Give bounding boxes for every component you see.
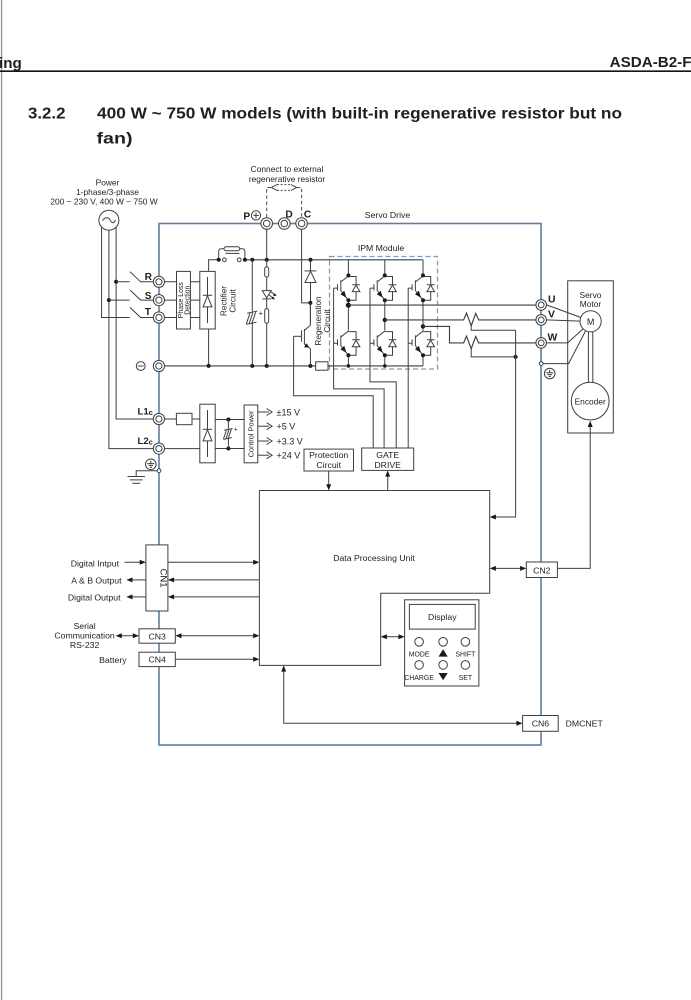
N bus left of shunt xyxy=(165,365,316,367)
arrow CN1 to A&B output xyxy=(130,579,146,581)
external regenerative resistor note xyxy=(249,164,326,184)
IPM column 1 collector stub xyxy=(347,260,349,276)
svg-text:Display: Display xyxy=(428,612,457,622)
IPM column 2 collector stub xyxy=(384,260,386,276)
svg-text:CN2: CN2 xyxy=(533,565,551,575)
W phase wire with current sensor xyxy=(423,326,536,348)
svg-text:V: V xyxy=(548,309,555,320)
junction P terminal xyxy=(265,258,269,262)
svg-text:Battery: Battery xyxy=(99,655,127,665)
svg-text:Encoder: Encoder xyxy=(575,396,606,406)
arrow DPU to CN1 row3 xyxy=(172,596,260,598)
DC P bus xyxy=(245,259,423,261)
Control Power block xyxy=(244,405,258,463)
svg-text:ing: ing xyxy=(0,55,22,72)
switch T xyxy=(130,307,153,317)
U phase wire xyxy=(348,304,536,306)
svg-text:±15 V: ±15 V xyxy=(277,407,300,417)
terminal minus xyxy=(153,360,164,371)
L1c fuse xyxy=(165,418,200,420)
wire DPU to CN6 xyxy=(284,669,519,724)
svg-text:+3.3 V: +3.3 V xyxy=(277,436,303,446)
display panel outer box xyxy=(405,600,479,686)
wire U terminal to motor xyxy=(547,305,581,318)
svg-text:+: + xyxy=(234,427,238,434)
terminal S xyxy=(153,295,164,306)
svg-text:M: M xyxy=(587,317,595,327)
IPM module dashed box xyxy=(330,257,438,370)
regen diode branch xyxy=(310,260,312,303)
phase V tap xyxy=(383,318,387,322)
collector junction dots xyxy=(346,273,350,277)
double arrow DPU to display xyxy=(384,636,401,638)
switch S xyxy=(109,290,153,300)
svg-text:Data Processing Unit: Data Processing Unit xyxy=(333,553,415,563)
motor shaft xyxy=(588,332,592,383)
junction relay left xyxy=(217,258,221,262)
capacitor (hatched electrolytic) xyxy=(246,309,263,325)
terminal D xyxy=(279,218,291,230)
gate wire column 2 xyxy=(370,288,396,448)
svg-text:Circuit: Circuit xyxy=(316,460,341,470)
wire ground node to motor xyxy=(543,331,586,364)
svg-text:L1c: L1c xyxy=(137,406,152,417)
LED branch: wire from P junction xyxy=(266,260,268,366)
svg-text:CN1: CN1 xyxy=(158,568,169,587)
phase loss detection block xyxy=(177,271,191,329)
svg-text:L2c: L2c xyxy=(137,436,152,447)
terminal T xyxy=(153,312,164,323)
junction C/diode/regen collector xyxy=(308,301,312,305)
svg-text:Servo Drive: Servo Drive xyxy=(365,210,411,220)
N bus junctions xyxy=(207,364,211,368)
svg-text:1-phase/3-phase: 1-phase/3-phase xyxy=(76,187,139,197)
wire C terminal down to regen node xyxy=(302,229,311,303)
svg-text:200 ~ 230 V, 400 W ~ 750 W: 200 ~ 230 V, 400 W ~ 750 W xyxy=(50,197,157,207)
wire phase2 (to S and L2c) xyxy=(109,230,153,448)
svg-text:Control Power: Control Power xyxy=(246,410,255,457)
svg-text:Serial: Serial xyxy=(73,621,95,631)
wire V terminal to motor xyxy=(547,320,581,321)
bleeder resistor 1 xyxy=(265,267,269,277)
wire phase3 (to R and L1c) xyxy=(116,227,153,419)
svg-text:DRIVE: DRIVE xyxy=(374,460,401,470)
terminal V xyxy=(536,315,547,326)
svg-text:+: + xyxy=(259,309,264,318)
svg-text:MODE: MODE xyxy=(409,651,430,658)
svg-text:R: R xyxy=(145,272,153,283)
gate wire column 3 xyxy=(407,288,409,448)
header rule xyxy=(0,70,691,72)
svg-text:T: T xyxy=(145,307,152,318)
control bus capacitor xyxy=(223,420,237,449)
svg-text:SHIFT: SHIFT xyxy=(455,651,476,658)
sensor junction xyxy=(514,355,518,359)
earth wire xyxy=(136,471,157,477)
keypad buttons row 1 xyxy=(415,638,424,647)
wire phase1 (to T) xyxy=(102,227,130,318)
charge LED xyxy=(262,291,276,300)
servo drive enclosure (blue box) xyxy=(159,224,541,746)
capacitor branch wire xyxy=(251,260,253,366)
servo motor box xyxy=(568,281,614,433)
IGBT U-high xyxy=(334,276,360,300)
arrow CN1 to digital output xyxy=(130,596,146,598)
CN4 connector xyxy=(139,652,175,666)
svg-text:3.2.2: 3.2.2 xyxy=(28,106,66,123)
svg-text:A & B Output: A & B Output xyxy=(71,576,122,586)
rectifier top lead to DC bus xyxy=(209,260,219,272)
wire to regen transistor xyxy=(309,303,311,324)
IPM column 3 collector stub xyxy=(422,260,424,276)
regen gate wire to gate drive xyxy=(294,336,374,448)
phase U tap xyxy=(346,303,351,308)
svg-text:regenerative resistor: regenerative resistor xyxy=(249,174,326,184)
terminal C xyxy=(296,218,308,230)
protective earth symbol xyxy=(544,368,555,379)
chassis earth circle below L2c xyxy=(146,459,157,470)
svg-text:RS-232: RS-232 xyxy=(70,640,100,650)
L2c wire xyxy=(165,448,200,450)
regen IGBT Q7 xyxy=(294,303,311,348)
IGBT W-high xyxy=(408,276,434,300)
svg-text:W: W xyxy=(548,332,558,343)
terminal U xyxy=(536,300,547,311)
arrow CN1 to DPU row1 xyxy=(168,561,256,563)
svg-text:Protection: Protection xyxy=(309,450,348,460)
ground symbol xyxy=(128,477,146,484)
svg-text:+5 V: +5 V xyxy=(277,422,296,432)
power source label xyxy=(50,178,157,207)
encoder xyxy=(571,382,609,420)
terminal W xyxy=(536,338,547,349)
ground node circle xyxy=(539,362,543,366)
svg-text:P: P xyxy=(243,211,250,222)
shunt resistor on N bus xyxy=(316,362,328,370)
soft-charge relay bypass resistor xyxy=(219,247,245,262)
svg-text:Detection: Detection xyxy=(184,285,191,314)
wire P terminal to bus xyxy=(266,229,268,259)
junction relay right xyxy=(243,258,247,262)
GATE DRIVE block xyxy=(362,448,414,470)
terminal L1c xyxy=(153,413,164,424)
svg-text:Circuit: Circuit xyxy=(323,309,332,333)
column 1 midpoint wire xyxy=(347,300,349,330)
phase junction dots high side xyxy=(346,298,350,302)
terminal R xyxy=(153,276,164,287)
CN1 connector xyxy=(146,545,168,611)
lower emitter dots xyxy=(346,353,350,357)
AC source xyxy=(99,210,119,230)
bleeder resistor 2 xyxy=(265,309,269,324)
IGBT V-low xyxy=(370,331,396,355)
arrow DPU to CN1 row2 xyxy=(172,579,260,581)
column 3 midpoint wire xyxy=(422,300,424,330)
svg-text:Digital Intput: Digital Intput xyxy=(71,558,120,568)
svg-text:fan): fan) xyxy=(97,131,133,148)
svg-text:ASDA-B2-F: ASDA-B2-F xyxy=(610,54,691,71)
CN3 connector xyxy=(139,629,175,643)
IGBT W-low xyxy=(408,331,434,355)
bridge outputs xyxy=(215,420,244,449)
rectifier bottom lead to N bus xyxy=(208,329,210,366)
rectifier circuit block xyxy=(200,271,215,329)
terminal L2c xyxy=(153,443,164,454)
V phase wire with current sensor xyxy=(385,313,536,326)
external resistor dashed link xyxy=(267,185,302,218)
svg-text:Regeneration: Regeneration xyxy=(314,296,323,346)
CN6 connector xyxy=(523,716,559,732)
wire W terminal to motor xyxy=(547,329,584,343)
junction cap branch xyxy=(250,258,254,262)
control power output +3.3V xyxy=(258,440,269,442)
IGBT V-high xyxy=(370,276,396,300)
V sensor tap xyxy=(471,326,515,330)
svg-text:CN6: CN6 xyxy=(532,718,550,728)
svg-text:CN3: CN3 xyxy=(149,631,167,641)
svg-text:400 W ~ 750 W models (with bui: 400 W ~ 750 W models (with built-in rege… xyxy=(97,106,622,123)
svg-text:Circuit: Circuit xyxy=(229,289,238,313)
svg-text:GATE: GATE xyxy=(376,450,399,460)
switch R xyxy=(116,272,153,282)
junction on phase2 at S row xyxy=(107,298,111,302)
arrow CN4 to DPU xyxy=(175,658,255,660)
earth node on enclosure xyxy=(157,469,161,473)
svg-text:CN4: CN4 xyxy=(149,655,167,665)
control power output +5V xyxy=(258,425,269,427)
svg-text:Communication: Communication xyxy=(54,630,115,640)
svg-text:Digital Output: Digital Output xyxy=(68,593,121,603)
column 2 midpoint wire xyxy=(384,300,386,330)
svg-text:SET: SET xyxy=(459,675,473,682)
arrow protection to DPU xyxy=(328,471,330,487)
svg-text:CHARGE: CHARGE xyxy=(404,675,434,682)
gate wire column 1 xyxy=(334,288,385,448)
terminal P xyxy=(261,218,273,230)
display window xyxy=(409,604,475,629)
IGBT U-low xyxy=(334,331,360,355)
N bus column dots xyxy=(347,364,351,368)
double arrow DPU to CN2 xyxy=(493,567,522,569)
wire CN2 to encoder xyxy=(557,424,590,568)
current feedback wire to DPU xyxy=(493,330,516,517)
svg-text:Motor: Motor xyxy=(580,299,602,309)
Data Processing Unit block xyxy=(259,491,489,666)
Protection Circuit block xyxy=(304,449,354,471)
control power bridge xyxy=(200,404,215,463)
double arrow label to CN3 xyxy=(119,635,135,637)
svg-text:DMCNET: DMCNET xyxy=(566,719,604,729)
page left border xyxy=(1,0,3,1000)
arrow DPU to gate drive xyxy=(387,474,389,491)
terminal minus symbol xyxy=(136,362,145,371)
svg-text:IPM Module: IPM Module xyxy=(358,243,405,253)
column lower emitter wires to N bus xyxy=(348,355,423,366)
control power output +-15V xyxy=(258,411,269,413)
svg-text:Rectifier: Rectifier xyxy=(220,286,229,316)
phase W tap xyxy=(421,324,425,328)
svg-text:+24 V: +24 V xyxy=(277,451,301,461)
regen emitter to N bus xyxy=(309,348,311,366)
keypad buttons row 2 xyxy=(415,661,424,670)
svg-text:S: S xyxy=(145,291,152,302)
CN2 connector xyxy=(526,562,557,578)
svg-text:U: U xyxy=(548,294,556,305)
arrow digital input to CN1 xyxy=(125,561,143,563)
W sensor tap xyxy=(471,349,515,357)
wires R S T to phase loss block xyxy=(165,282,200,318)
junction regen diode xyxy=(309,258,313,262)
motor circle M xyxy=(580,311,601,332)
control power output +24V xyxy=(258,454,269,456)
N bus right of shunt xyxy=(328,365,423,367)
svg-text:Power: Power xyxy=(96,178,120,188)
svg-text:Connect to external: Connect to external xyxy=(251,164,324,174)
double arrow CN3 to DPU xyxy=(179,635,256,637)
rectifier diode xyxy=(207,277,209,323)
junction on phase3 at R row xyxy=(114,280,118,284)
